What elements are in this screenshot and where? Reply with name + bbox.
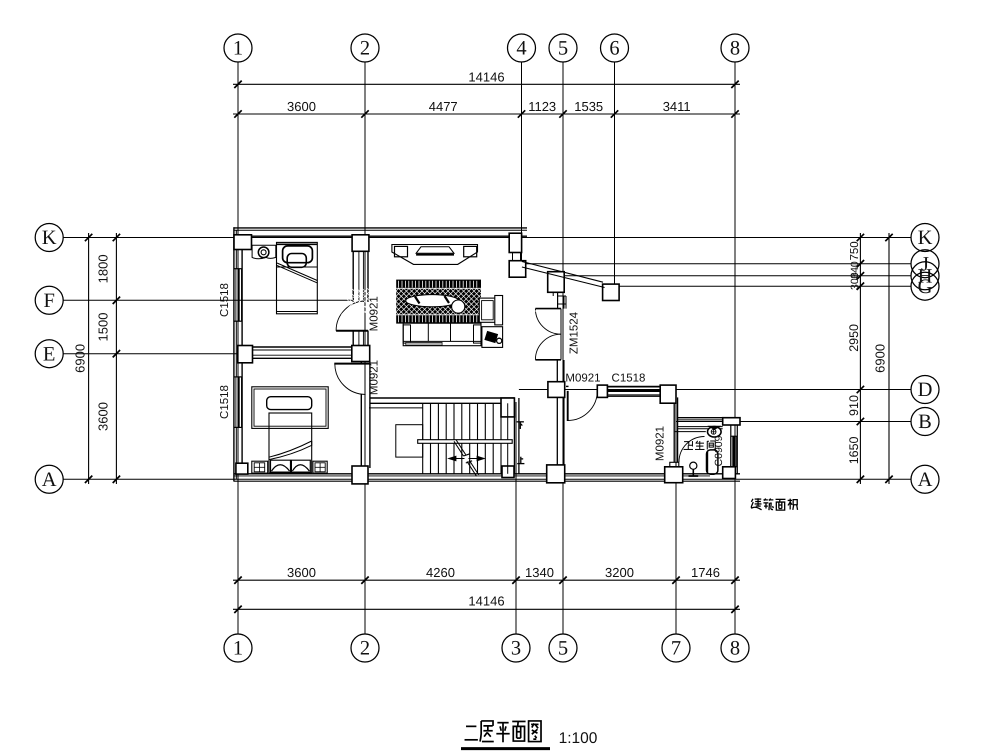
door ZM1524 threshold line: [560, 309, 562, 360]
sofa three-seat: [403, 323, 481, 346]
bedroom2 foot cushion right: [291, 460, 310, 472]
sofa base shading: [406, 342, 442, 345]
column 1A: [236, 463, 248, 474]
column 5A: [547, 465, 565, 483]
stairwell right wall: [513, 398, 515, 474]
corridor wall column 5: [556, 360, 558, 474]
svg-text:3600: 3600: [287, 565, 316, 580]
axis bubble 1: [224, 34, 252, 62]
axis bubble B: [911, 408, 939, 436]
axis bubble A: [911, 465, 939, 493]
stair upper landing edge: [369, 407, 423, 409]
axis bubble 8: [721, 634, 749, 662]
bedroom2 nightstand left: [252, 461, 268, 473]
title underline: [461, 747, 550, 750]
TV console right speaker: [464, 246, 477, 256]
svg-text:1800: 1800: [96, 254, 111, 283]
door M0921 hall swing arc: [568, 391, 598, 421]
svg-text:M0921: M0921: [565, 373, 600, 385]
window C1518 lower-left: [234, 376, 242, 378]
svg-text:1: 1: [233, 38, 243, 60]
grid line column 8: [734, 62, 736, 634]
column 2E: [352, 346, 370, 362]
svg-text:G: G: [918, 276, 933, 298]
svg-text:1535: 1535: [574, 99, 603, 114]
column D-wall left: [597, 385, 607, 397]
shower floor drain: [690, 462, 697, 469]
bedroom1 blanket fold diagonal: [277, 263, 317, 281]
door ZM1524 upper swing arc: [535, 309, 561, 335]
column 7D: [660, 385, 676, 403]
svg-text:3: 3: [511, 638, 521, 660]
grid line column 2: [364, 62, 366, 634]
axis bubble D: [911, 376, 939, 404]
axis bubble K: [911, 224, 939, 252]
armchair back: [495, 296, 503, 325]
column balcony 2: [548, 272, 565, 293]
television trapezoid: [416, 247, 454, 254]
svg-text:1650: 1650: [847, 436, 861, 464]
bedroom1 nightstand: [252, 245, 276, 259]
stair arrow right: [469, 458, 479, 460]
svg-text:1:100: 1:100: [559, 730, 598, 747]
svg-text:1: 1: [233, 638, 243, 660]
coffee table oval on carpet: [406, 295, 459, 307]
door ZM1524 lower swing arc: [535, 334, 561, 360]
svg-text:M0921: M0921: [654, 426, 666, 461]
column 8 bath top: [723, 418, 740, 425]
hall wall at row D: [566, 385, 569, 387]
interior wall between bedrooms: [242, 346, 353, 348]
door M0921 bedroom 1 swing arc: [336, 301, 366, 331]
grid line column 3: [515, 402, 517, 634]
svg-text:3411: 3411: [663, 99, 691, 114]
column stair top-right: [501, 398, 514, 417]
column 1K: [234, 235, 252, 250]
door M0921 bedroom 1 leaf: [336, 330, 368, 332]
bedroom1 bed foot line: [277, 311, 318, 313]
grid line row E: [63, 353, 242, 355]
svg-text:A: A: [918, 469, 933, 491]
grid line row H: [548, 275, 911, 277]
bedroom2 foot cushion left: [271, 460, 291, 472]
column balcony top: [509, 233, 521, 252]
top dimension total line 14146: [233, 83, 740, 85]
sofa right armrest: [474, 325, 482, 343]
svg-text:3600: 3600: [287, 99, 316, 114]
svg-text:A: A: [42, 469, 57, 491]
bedroom1 nightstand cup circle: [258, 247, 269, 258]
svg-text:14146: 14146: [468, 70, 504, 85]
svg-text:D: D: [918, 379, 933, 401]
door ZM1524 upper leaf: [535, 308, 561, 310]
axis bubble 7: [662, 634, 690, 662]
grid line column 5: [562, 62, 564, 634]
column stair bottom-right: [502, 466, 514, 478]
column 8A: [723, 467, 736, 479]
bathroom top wall: [677, 417, 740, 419]
door M0921 bedroom 2 leaf: [334, 363, 369, 365]
axis bubble K: [35, 224, 63, 252]
svg-text:2950: 2950: [847, 324, 861, 352]
right dimension total line 6900: [888, 233, 890, 484]
grid line row G: [607, 285, 911, 287]
door M0921 bathroom swing arc: [679, 437, 705, 463]
svg-text:8: 8: [730, 38, 740, 60]
svg-text:750: 750: [849, 241, 861, 260]
bedroom1 pillow large: [283, 246, 313, 263]
svg-text:M0921: M0921: [369, 296, 381, 331]
bedroom2 double bed body: [269, 413, 312, 473]
grid line row F: [63, 299, 353, 301]
bathtub: [707, 450, 718, 474]
bottom exterior wall: [234, 473, 741, 475]
svg-text:4260: 4260: [426, 565, 455, 580]
axis bubble 5: [549, 34, 577, 62]
door M0921 bathroom leaf: [670, 462, 679, 467]
window C1518 upper-left: [234, 268, 242, 270]
right dimension segment line: [859, 233, 861, 484]
interior wall bedroom-living vertical: [352, 236, 354, 302]
svg-text:5: 5: [558, 638, 568, 660]
svg-text:C1518: C1518: [219, 385, 231, 419]
decor items on table: [415, 297, 420, 304]
svg-text:6: 6: [609, 38, 619, 60]
bedroom2 pillow: [267, 397, 312, 410]
svg-text:910: 910: [847, 395, 861, 416]
door M0921 bedroom 2 swing arc: [335, 364, 366, 395]
axis bubble 8: [721, 34, 749, 62]
grid line row A: [63, 478, 911, 480]
carpet with hatch pattern: [336, 280, 539, 324]
bottom dimension segment line: [233, 579, 740, 581]
bathroom left wall: [673, 397, 675, 462]
svg-text:1746: 1746: [691, 565, 720, 580]
column 5D: [548, 382, 565, 398]
door ZM1524 lower leaf: [535, 359, 561, 361]
svg-text:K: K: [918, 227, 933, 249]
axis bubble J: [911, 250, 939, 278]
stair label 上 up: [520, 457, 522, 464]
axis bubble 2: [351, 34, 379, 62]
axis bubble G: [911, 272, 939, 300]
axis bubble H: [911, 262, 939, 290]
svg-text:6900: 6900: [873, 344, 888, 373]
TV console left speaker: [395, 246, 408, 256]
grid line row J: [522, 263, 911, 265]
grid line column 1: [237, 62, 239, 634]
toilet: [708, 427, 722, 437]
svg-text:1123: 1123: [528, 99, 556, 114]
window C1518 row D: [608, 386, 661, 388]
axis bubble 6: [601, 34, 629, 62]
left exterior wall: [233, 227, 235, 481]
svg-text:K: K: [42, 227, 57, 249]
svg-text:M0921: M0921: [369, 360, 381, 395]
grid line column 4: [521, 62, 523, 262]
sofa left armrest: [403, 325, 410, 343]
svg-text:C1518: C1518: [219, 283, 231, 317]
round stool at carpet right: [452, 300, 465, 313]
top exterior wall: [234, 227, 528, 229]
column balcony 1: [509, 261, 526, 278]
terrace sloped parapet lines: [522, 262, 603, 283]
stair direction line with break: [454, 441, 464, 456]
stair center rail: [418, 440, 513, 444]
grid line row K: [63, 237, 911, 239]
svg-text:1500: 1500: [96, 313, 111, 342]
stairwell top wall: [370, 397, 515, 399]
left dimension total line 6900: [88, 233, 90, 484]
column 2K: [352, 235, 369, 252]
stair arrow left: [455, 458, 465, 460]
terrace connector below top column: [512, 253, 514, 261]
label 建筑面积 building area: [755, 498, 762, 500]
column 7A: [665, 467, 683, 483]
bedroom2 blanket folds: [269, 441, 312, 457]
grid line row D: [519, 389, 911, 391]
svg-text:F: F: [43, 290, 54, 312]
bathroom right wall with window C0909: [730, 425, 732, 474]
column 2A: [352, 466, 368, 484]
svg-text:8: 8: [730, 638, 740, 660]
door M0921 hall leaf: [567, 391, 569, 421]
axis bubble 1: [224, 634, 252, 662]
bedroom1 sheet line: [277, 266, 318, 268]
stair mid landing box: [396, 425, 423, 457]
grid line column 7: [675, 390, 677, 634]
svg-text:1340: 1340: [525, 565, 554, 580]
armchair seat: [479, 298, 495, 322]
axis bubble 5: [549, 634, 577, 662]
svg-text:300: 300: [849, 272, 861, 290]
title 二层平面图: [466, 725, 476, 727]
column 1E: [238, 346, 253, 363]
grid line row B: [676, 421, 911, 423]
svg-text:3600: 3600: [96, 402, 111, 431]
bedroom2 nightstand right: [313, 461, 327, 473]
stair label 下 down: [517, 421, 524, 423]
bedroom1 single bed outline: [277, 242, 318, 313]
axis bubble F: [35, 286, 63, 314]
bedroom2 headboard panel: [252, 387, 328, 429]
svg-text:4: 4: [516, 38, 526, 60]
axis bubble 4: [508, 34, 536, 62]
svg-text:ZM1524: ZM1524: [569, 311, 581, 354]
svg-text:4477: 4477: [429, 99, 458, 114]
TV console: [392, 245, 478, 265]
lamp symbol: [485, 332, 498, 343]
left dimension segment line: [115, 233, 117, 484]
svg-text:6900: 6900: [73, 344, 88, 373]
bottom dimension total line 14146: [233, 608, 740, 610]
svg-text:14146: 14146: [468, 594, 504, 609]
axis bubble 2: [351, 634, 379, 662]
svg-text:2: 2: [360, 38, 370, 60]
axis bubble 3: [502, 634, 530, 662]
stair right stringer: [507, 403, 509, 474]
side table with lamp: [482, 327, 503, 348]
svg-text:E: E: [43, 343, 56, 365]
svg-text:2: 2: [360, 638, 370, 660]
svg-text:5: 5: [558, 38, 568, 60]
bedroom1 pillow small: [287, 254, 306, 268]
column balcony 3: [603, 284, 620, 300]
stair treads: [422, 403, 424, 474]
svg-text:3200: 3200: [605, 565, 634, 580]
terrace connector below column 2: [552, 292, 554, 296]
axis bubble A: [35, 465, 63, 493]
svg-text:C1518: C1518: [612, 373, 646, 385]
bedroom1 bed head line: [277, 243, 318, 245]
grid line column 6: [614, 62, 616, 286]
axis bubble E: [35, 340, 63, 368]
svg-text:7: 7: [671, 638, 681, 660]
label bathroom 卫生间: [684, 442, 692, 446]
svg-text:B: B: [918, 411, 932, 433]
svg-text:C0909: C0909: [713, 435, 725, 466]
top dimension segment line: [233, 113, 740, 115]
